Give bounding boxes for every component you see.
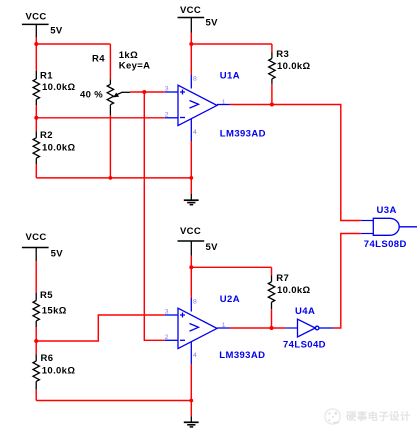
resistor R6 [35, 341, 37, 355]
wire VCC2 stub [190, 33, 192, 45]
svg-text:74LS04D: 74LS04D [283, 339, 326, 350]
svg-text:8: 8 [193, 76, 197, 83]
svg-text:R6: R6 [41, 353, 54, 364]
svg-text:R4: R4 [92, 54, 105, 65]
svg-text:10.0kΩ: 10.0kΩ [277, 61, 311, 72]
svg-text:VCC: VCC [26, 232, 47, 243]
svg-text:Key=A: Key=A [119, 61, 151, 72]
wire R7 bottom [271, 309, 273, 328]
wire U1A output to U3A input A [230, 105, 361, 221]
svg-text:40 %: 40 % [80, 89, 103, 100]
svg-text:15kΩ: 15kΩ [42, 306, 67, 317]
svg-text:LM393AD: LM393AD [220, 128, 266, 139]
wire VCC4 stub [190, 256, 192, 268]
ground top circuit [184, 194, 199, 205]
wire VCC1 down to R1 [35, 44, 37, 71]
svg-text:VCC: VCC [180, 5, 201, 16]
wire ground rail bottom circuit [36, 400, 191, 402]
wire U3A input A stub [361, 220, 374, 222]
power VCC3 [22, 248, 49, 262]
node R7/output junction [270, 326, 274, 330]
wire VCC4 to R7 [191, 266, 271, 268]
node rail2/ground junction [189, 399, 193, 403]
svg-text:R7: R7 [276, 273, 289, 284]
node A junction R1/R2 [34, 116, 38, 120]
wire R5 bottom [35, 327, 37, 341]
inverter U4A [298, 319, 334, 337]
svg-text:5V: 5V [206, 18, 219, 29]
svg-text:硬事电子设计: 硬事电子设计 [346, 410, 411, 423]
node rail/ground junction [189, 176, 193, 180]
svg-text:2: 2 [165, 334, 169, 341]
op-amp U2A [165, 298, 230, 364]
node R3/output junction [270, 103, 274, 107]
node VCC2 junction [189, 42, 193, 46]
wire U1A pin4 to rail [190, 141, 192, 178]
svg-text:R2: R2 [40, 130, 53, 141]
wire R6 bottom [35, 390, 37, 401]
ground bottom circuit [184, 416, 199, 427]
wire node A to U1A pin2 [36, 117, 165, 119]
svg-text:1kΩ: 1kΩ [119, 50, 138, 61]
wire VCC1 stub [35, 37, 37, 44]
wire U2A output to U4A [230, 327, 286, 329]
power VCC1 [22, 24, 49, 38]
svg-text:3: 3 [165, 309, 169, 316]
svg-text:R3: R3 [276, 49, 289, 60]
svg-text:4: 4 [193, 352, 197, 359]
wire R2 bottom [35, 164, 37, 178]
potentiometer R4 [109, 44, 111, 79]
wire R3 bottom [271, 84, 273, 105]
wire wiper down to U2A pin2 [144, 92, 165, 340]
wire R5/R6 node to U2A pin3 (step) [36, 315, 165, 341]
node R5/R6 junction [34, 339, 38, 343]
wire U2A pin4 to rail [190, 364, 192, 401]
wire R4 bottom to rail [109, 115, 111, 178]
AND gate U3A [373, 218, 417, 235]
svg-text:8: 8 [193, 299, 197, 306]
resistor R3 [271, 44, 273, 52]
node wiper junction [142, 90, 146, 94]
svg-text:U3A: U3A [377, 205, 397, 216]
wire VCC1 to R4 top [36, 43, 110, 45]
resistor R1 [33, 71, 39, 105]
op-amp U1A [165, 75, 230, 141]
svg-text:3: 3 [165, 86, 169, 93]
svg-text:2: 2 [165, 111, 169, 118]
svg-text:10.0kΩ: 10.0kΩ [42, 366, 76, 377]
wire U4A output up to U3A input B [334, 234, 361, 329]
wire R1 bottom [35, 105, 37, 118]
svg-text:4: 4 [193, 129, 197, 136]
wire ground rail top circuit [36, 177, 191, 179]
wire VCC2 down to pin8 [190, 44, 192, 75]
svg-text:5V: 5V [206, 242, 219, 253]
power VCC2 [178, 18, 205, 33]
wire ground stem 2 [190, 401, 192, 417]
svg-text:R1: R1 [40, 71, 53, 82]
svg-text:U2A: U2A [220, 294, 240, 305]
svg-text:U1A: U1A [220, 71, 240, 82]
resistor R7 [271, 267, 273, 275]
svg-text:5V: 5V [50, 25, 63, 36]
wire U3A input B stub [361, 233, 374, 235]
wire VCC3 to R5 [35, 261, 37, 293]
R4 wiper arrowhead [113, 93, 119, 98]
svg-text:LM393AD: LM393AD [219, 350, 265, 361]
svg-text:5V: 5V [51, 248, 64, 259]
svg-text:VCC: VCC [180, 226, 201, 237]
resistor R5 [33, 293, 39, 327]
wire VCC4 down to U2A pin8 [190, 267, 192, 298]
svg-text:R5: R5 [40, 290, 53, 301]
watermark icon [325, 409, 340, 424]
power VCC4 [178, 241, 205, 256]
svg-text:10.0kΩ: 10.0kΩ [42, 82, 76, 93]
wire U4A input stub [285, 327, 298, 329]
svg-text:U4A: U4A [295, 306, 315, 317]
wire VCC2 to R3 [191, 43, 272, 45]
svg-text:10.0kΩ: 10.0kΩ [277, 285, 311, 296]
svg-text:VCC: VCC [26, 11, 47, 22]
svg-text:1: 1 [222, 322, 226, 329]
svg-text:10.0kΩ: 10.0kΩ [42, 143, 76, 154]
svg-text:74LS08D: 74LS08D [364, 239, 407, 250]
node VCC4 junction [189, 265, 193, 269]
node R4/rail junction [109, 176, 113, 180]
wire wiper to pin3 [130, 91, 165, 93]
node VCC1 junction [34, 42, 38, 46]
resistor R2 [35, 118, 37, 132]
wire ground stem [190, 178, 192, 194]
svg-text:1: 1 [222, 99, 226, 106]
